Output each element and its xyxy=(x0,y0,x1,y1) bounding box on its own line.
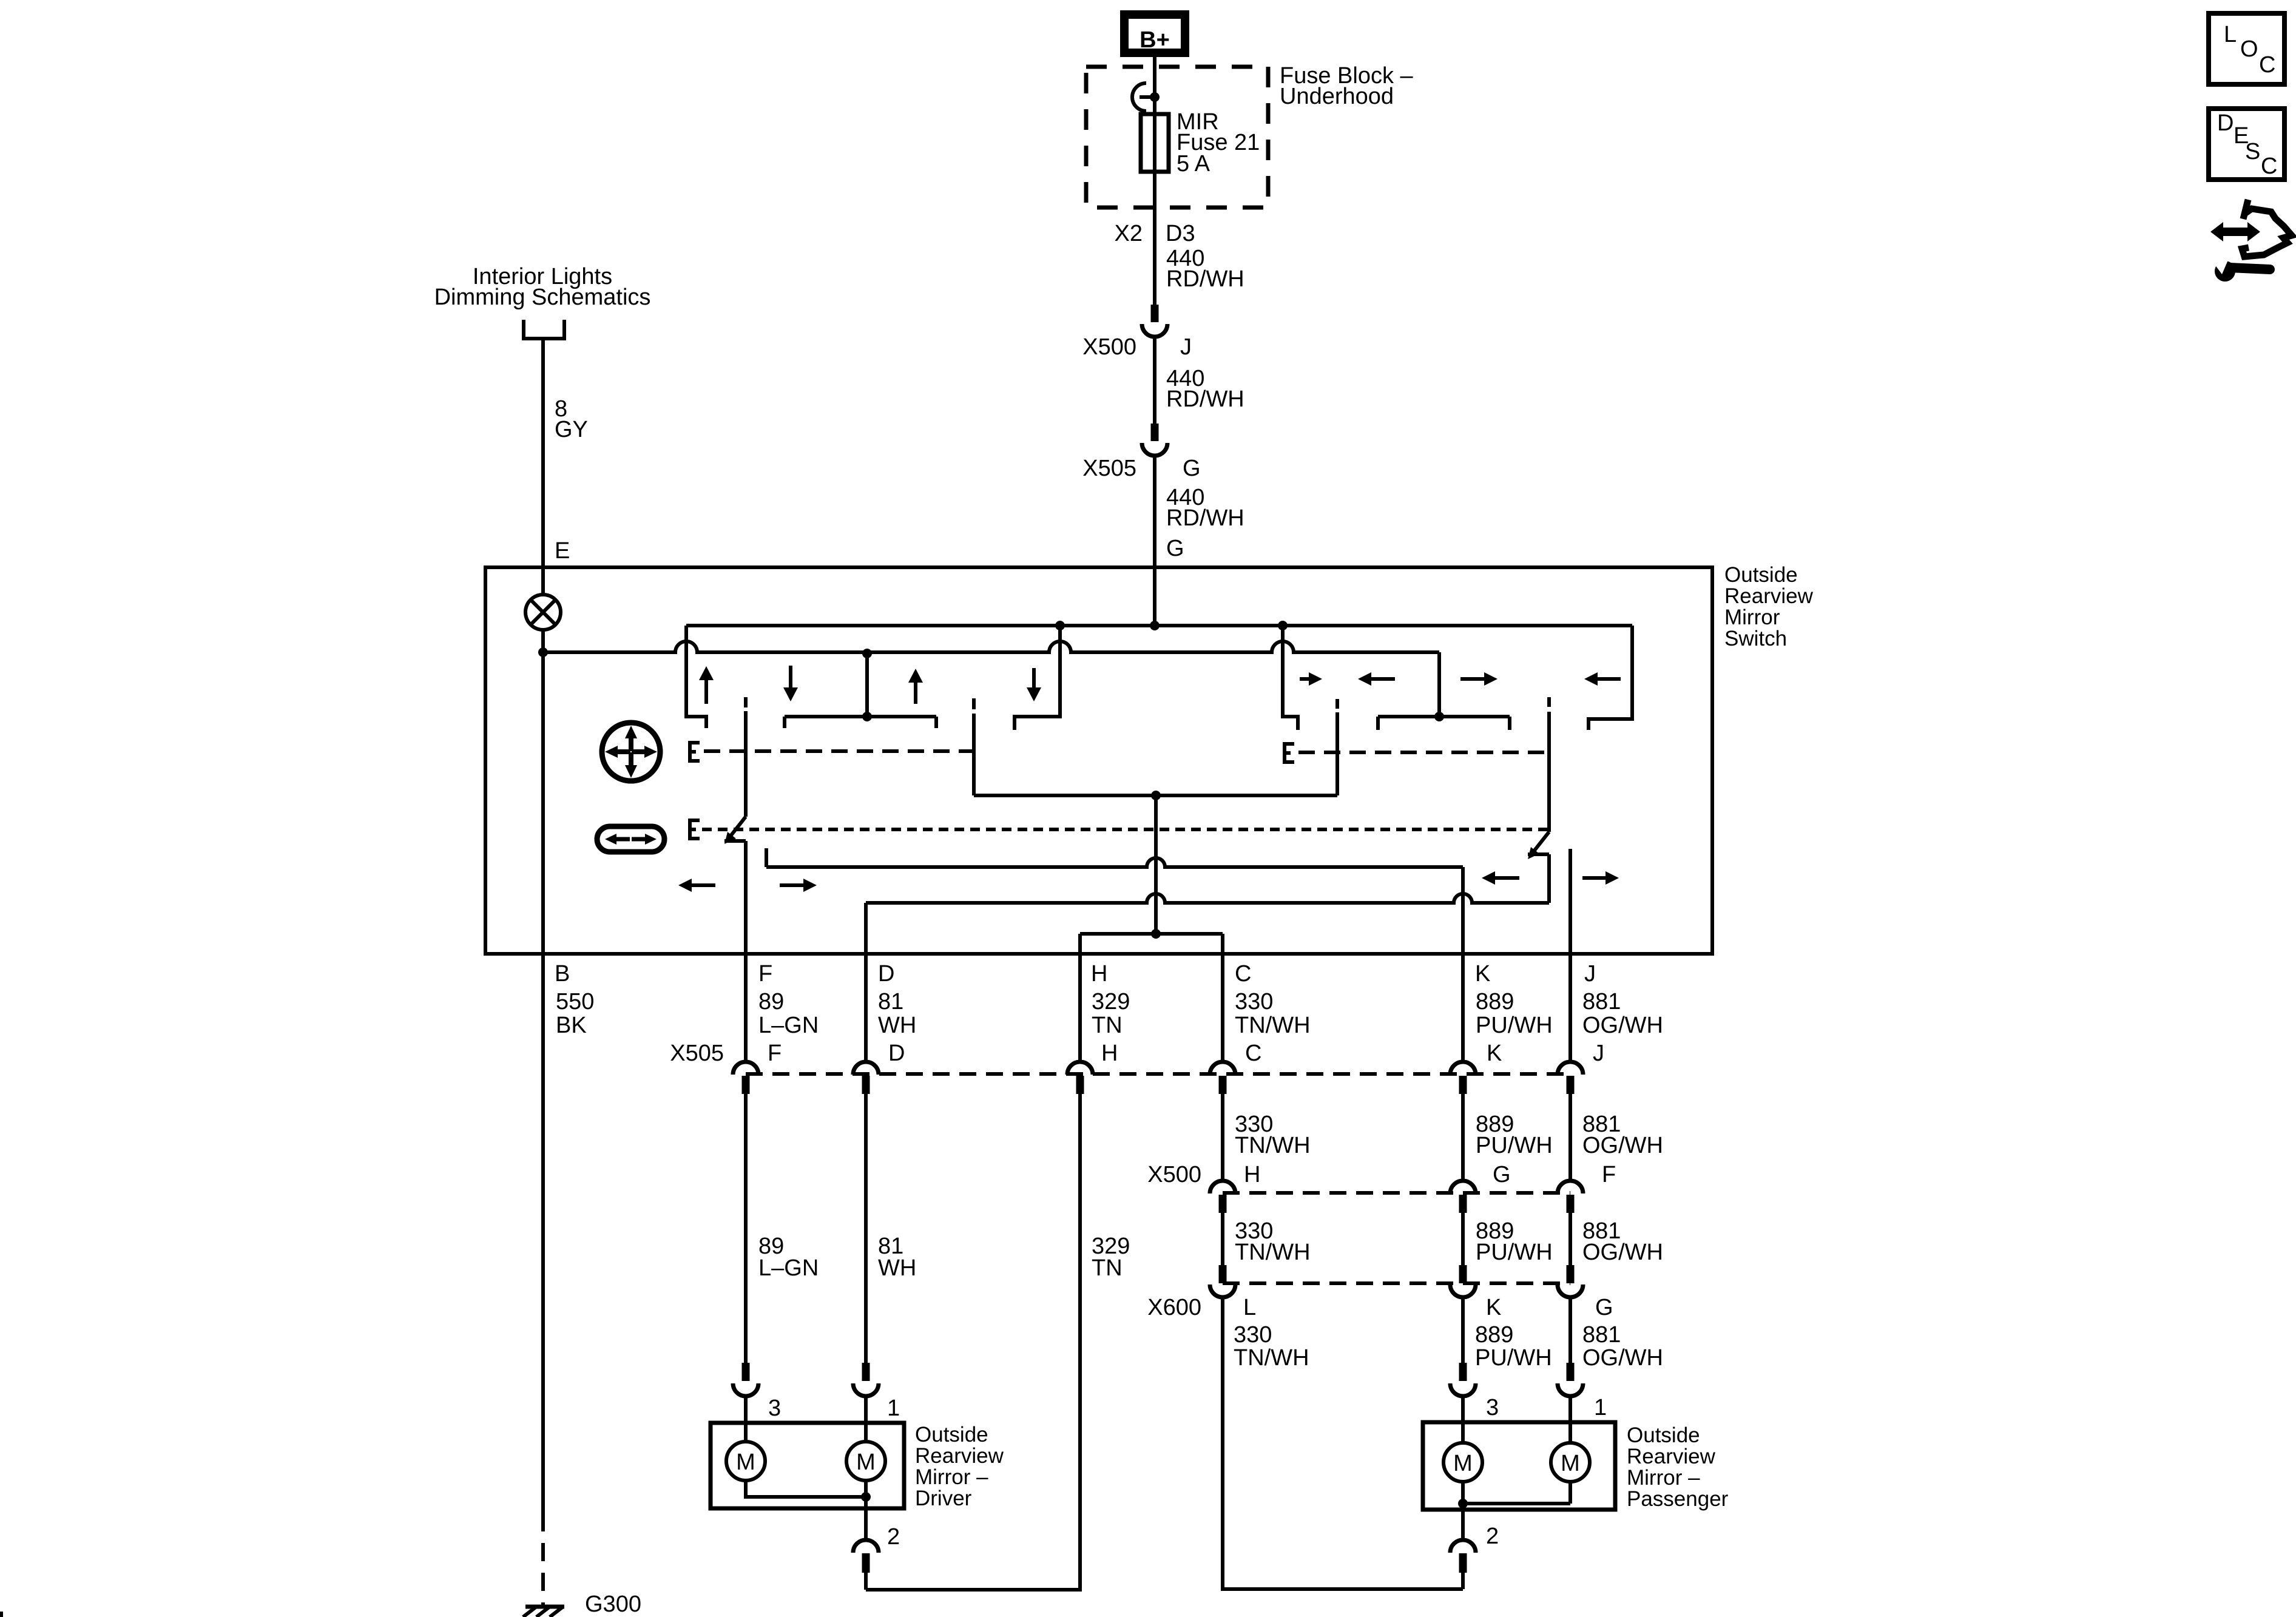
svg-text:330: 330 xyxy=(1234,1322,1272,1348)
svg-text:PU/WH: PU/WH xyxy=(1476,1133,1553,1158)
svg-text:C: C xyxy=(1235,961,1251,987)
svg-text:881: 881 xyxy=(1582,1322,1621,1348)
svg-text:RD/WH: RD/WH xyxy=(1166,505,1244,531)
svg-text:2: 2 xyxy=(1486,1524,1499,1549)
svg-text:WH: WH xyxy=(878,1255,916,1281)
svg-text:L–GN: L–GN xyxy=(758,1013,819,1038)
svg-text:Rearview: Rearview xyxy=(915,1444,1004,1468)
svg-text:Mirror –: Mirror – xyxy=(1627,1466,1700,1490)
svg-text:3: 3 xyxy=(1486,1395,1499,1420)
svg-text:OG/WH: OG/WH xyxy=(1582,1240,1663,1265)
svg-text:81: 81 xyxy=(878,989,903,1014)
svg-text:Driver: Driver xyxy=(915,1487,972,1510)
svg-text:M: M xyxy=(736,1450,755,1475)
svg-text:K: K xyxy=(1487,1041,1502,1066)
svg-text:1: 1 xyxy=(1594,1395,1607,1420)
svg-text:WH: WH xyxy=(878,1013,916,1038)
svg-text:X2: X2 xyxy=(1115,221,1143,246)
svg-text:X505: X505 xyxy=(670,1041,724,1066)
svg-text:RD/WH: RD/WH xyxy=(1166,266,1244,292)
svg-text:O: O xyxy=(2240,36,2258,62)
svg-text:PU/WH: PU/WH xyxy=(1476,1013,1553,1038)
svg-text:C: C xyxy=(2259,52,2275,78)
svg-text:2: 2 xyxy=(887,1524,900,1550)
svg-text:M: M xyxy=(856,1450,876,1475)
svg-text:H: H xyxy=(1101,1041,1118,1066)
svg-text:Mirror –: Mirror – xyxy=(915,1465,988,1489)
svg-text:Underhood: Underhood xyxy=(1280,84,1394,109)
svg-text:Rearview: Rearview xyxy=(1627,1445,1716,1468)
svg-text:X600: X600 xyxy=(1147,1295,1201,1320)
svg-text:L: L xyxy=(2224,22,2237,47)
svg-text:Switch: Switch xyxy=(1724,627,1787,650)
svg-text:OG/WH: OG/WH xyxy=(1582,1013,1663,1038)
svg-text:PU/WH: PU/WH xyxy=(1475,1345,1552,1371)
svg-text:89: 89 xyxy=(758,989,784,1014)
svg-text:F: F xyxy=(768,1041,782,1066)
svg-text:889: 889 xyxy=(1475,1322,1513,1348)
svg-text:K: K xyxy=(1475,961,1490,987)
svg-text:Dimming Schematics: Dimming Schematics xyxy=(434,285,651,310)
svg-text:X500: X500 xyxy=(1082,334,1136,360)
svg-text:3: 3 xyxy=(768,1396,781,1421)
svg-text:E: E xyxy=(555,538,570,564)
svg-text:Outside: Outside xyxy=(1724,563,1798,587)
svg-text:TN/WH: TN/WH xyxy=(1235,1013,1311,1038)
svg-text:D3: D3 xyxy=(1166,221,1195,246)
svg-text:X505: X505 xyxy=(1082,456,1136,481)
svg-text:RD/WH: RD/WH xyxy=(1166,387,1244,412)
svg-text:550: 550 xyxy=(556,989,594,1014)
svg-text:TN/WH: TN/WH xyxy=(1235,1133,1311,1158)
svg-text:329: 329 xyxy=(1092,989,1130,1014)
svg-text:D: D xyxy=(2217,110,2234,136)
svg-text:TN/WH: TN/WH xyxy=(1234,1345,1309,1371)
svg-text:PU/WH: PU/WH xyxy=(1476,1240,1553,1265)
svg-text:L: L xyxy=(1243,1295,1256,1320)
svg-text:J: J xyxy=(1584,961,1596,987)
svg-text:G: G xyxy=(1493,1162,1511,1187)
svg-text:L–GN: L–GN xyxy=(758,1255,819,1281)
svg-text:BK: BK xyxy=(556,1013,587,1038)
svg-text:889: 889 xyxy=(1476,989,1514,1014)
svg-text:Outside: Outside xyxy=(915,1423,988,1447)
svg-text:1: 1 xyxy=(887,1396,900,1421)
svg-text:5 A: 5 A xyxy=(1177,151,1210,177)
svg-text:X500: X500 xyxy=(1147,1162,1201,1187)
svg-text:K: K xyxy=(1486,1295,1501,1320)
svg-text:F: F xyxy=(758,961,772,987)
svg-text:M: M xyxy=(1561,1451,1580,1476)
svg-text:330: 330 xyxy=(1235,989,1273,1014)
svg-text:OG/WH: OG/WH xyxy=(1582,1345,1663,1371)
svg-text:Mirror: Mirror xyxy=(1724,606,1780,629)
svg-text:D: D xyxy=(888,1041,905,1066)
svg-text:D: D xyxy=(878,961,894,987)
svg-text:OG/WH: OG/WH xyxy=(1582,1133,1663,1158)
svg-text:F: F xyxy=(1602,1162,1616,1187)
svg-text:J: J xyxy=(1593,1041,1604,1066)
svg-text:M: M xyxy=(1453,1451,1473,1476)
svg-text:Rearview: Rearview xyxy=(1724,584,1814,608)
svg-text:B: B xyxy=(555,961,570,987)
svg-text:C: C xyxy=(1245,1041,1261,1066)
svg-text:G: G xyxy=(1183,456,1201,481)
svg-text:C: C xyxy=(2261,154,2277,179)
svg-text:H: H xyxy=(1091,961,1107,987)
svg-text:Outside: Outside xyxy=(1627,1423,1700,1447)
svg-text:G: G xyxy=(1166,536,1184,561)
svg-text:TN: TN xyxy=(1092,1013,1123,1038)
svg-text:GY: GY xyxy=(555,417,588,442)
svg-text:G300: G300 xyxy=(585,1592,641,1617)
svg-text:J: J xyxy=(1180,334,1192,360)
svg-text:TN: TN xyxy=(1092,1255,1123,1281)
svg-text:B+: B+ xyxy=(1140,27,1170,53)
svg-text:H: H xyxy=(1244,1162,1260,1187)
svg-text:S: S xyxy=(2245,139,2260,164)
svg-text:G: G xyxy=(1595,1295,1613,1320)
svg-text:TN/WH: TN/WH xyxy=(1235,1240,1311,1265)
svg-text:881: 881 xyxy=(1582,989,1621,1014)
svg-text:Passenger: Passenger xyxy=(1627,1487,1729,1511)
